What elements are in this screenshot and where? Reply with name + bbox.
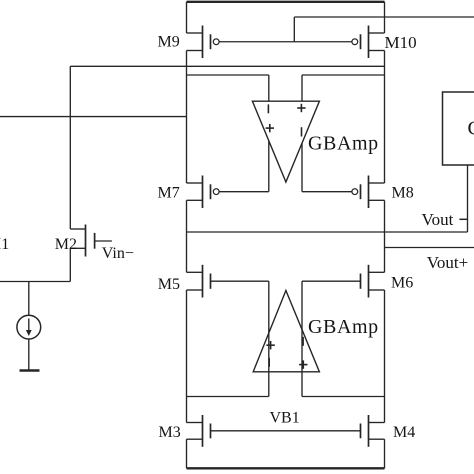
- wire: gate bias stub up: [293, 17, 295, 42]
- wire: M9/M10 drain link: [70, 65, 384, 67]
- wire: left branch, M3 source to bottom rail: [186, 439, 188, 468]
- wire: Vout- net: [187, 231, 468, 233]
- wire: current source to supply tick: [28, 339, 30, 370]
- wire: bias line to right edge: [294, 16, 474, 18]
- transistor M5: [187, 265, 211, 298]
- GBAmp1 minus output mark: [301, 127, 303, 136]
- wire: left branch, rail to M9 drain: [186, 2, 188, 33]
- svg-text:M7: M7: [158, 184, 180, 201]
- svg-text:Vin−: Vin−: [102, 245, 134, 262]
- label Vout-: [422, 210, 469, 229]
- wire: GBAmp2 left sense segment: [187, 396, 269, 398]
- GBAmp2 plus input mark: [299, 360, 307, 368]
- GBAmp2 minus input mark: [268, 358, 270, 367]
- transistor M4: [361, 415, 385, 447]
- wire: right branch, rail to M10 drain: [384, 2, 386, 33]
- wire: right branch, M10 source to M8 drain: [384, 51, 386, 184]
- transistor M9: [187, 26, 220, 59]
- wire: Vout+ net: [385, 247, 474, 249]
- wire: M1 drain to left branch: [0, 116, 187, 118]
- GBAmp2 plus output mark: [266, 341, 274, 349]
- svg-text:GBAmp: GBAmp: [308, 316, 379, 338]
- wire: GBAmp1 non-inverting input stub: [301, 75, 303, 101]
- svg-text:VB1: VB1: [270, 410, 300, 427]
- transistor M6: [361, 265, 385, 298]
- wire: left cascode sense segment: [187, 74, 269, 76]
- wire: M2 source to tail node: [69, 248, 71, 281]
- svg-text:M4: M4: [393, 424, 415, 441]
- wire: right branch, M4 source to bottom rail: [384, 439, 386, 468]
- ground bottom rail: [187, 467, 385, 469]
- svg-text:M8: M8: [392, 184, 414, 201]
- op-amp GBAmp2: [253, 291, 319, 372]
- transistor M7: [187, 176, 220, 209]
- svg-text:M3: M3: [159, 424, 181, 441]
- GBAmp2 minus output mark: [302, 337, 304, 346]
- transistor M10: [352, 26, 385, 59]
- transistor M8: [352, 176, 385, 209]
- svg-text:M10: M10: [385, 33, 417, 52]
- wire: M6 gate to GBAmp2 output: [302, 281, 361, 396]
- svg-text:M1: M1: [0, 236, 9, 253]
- wire: tail to current source: [28, 282, 30, 316]
- GBAmp1 plus output mark: [266, 124, 274, 132]
- svg-text:Vout+: Vout+: [427, 253, 468, 272]
- svg-text:C: C: [468, 118, 474, 140]
- ground tick under current source: [20, 369, 40, 372]
- wire: right cascode sense segment: [302, 74, 385, 76]
- wire: M5 gate to GBAmp2 output: [211, 281, 269, 396]
- wire: left branch, M5 source to M3 drain: [186, 290, 188, 423]
- svg-text:Vout: Vout: [422, 210, 454, 229]
- wire: GBAmp2 right sense segment: [302, 396, 385, 398]
- GBAmp1 plus input mark: [297, 104, 305, 112]
- svg-text:M2: M2: [55, 236, 77, 253]
- wire: GBAmp1 output to M7 gate: [219, 141, 269, 192]
- wire: CMFB box to Vout-: [467, 165, 469, 232]
- current source I1: [17, 315, 41, 339]
- wire: GBAmp1 inverting input stub: [268, 75, 270, 101]
- transistor M2: [70, 225, 112, 257]
- wire: VB1 gate line M3 to M4: [211, 430, 361, 432]
- wire: GBAmp1 output to M8 gate: [302, 143, 352, 191]
- svg-text:M9: M9: [158, 33, 180, 50]
- wire: M2 drain riser: [69, 66, 71, 229]
- wire: M9 gate to M10 gate: [219, 41, 352, 43]
- transistor M3: [187, 415, 211, 447]
- VDD top rail: [187, 1, 385, 3]
- CMFB box: [443, 92, 474, 165]
- wire: tail node line: [0, 281, 70, 283]
- GBAmp1 minus input mark: [267, 104, 269, 113]
- svg-text:GBAmp: GBAmp: [308, 133, 379, 155]
- wire: right branch, M6 source to M4 drain: [384, 290, 386, 423]
- svg-text:M6: M6: [391, 275, 413, 292]
- wire: right branch, M8 source to M6 drain: [384, 200, 386, 272]
- op-amp GBAmp1: [252, 101, 319, 182]
- svg-text:M5: M5: [158, 276, 180, 293]
- wire: left branch, M7 source to M5 drain: [186, 200, 188, 272]
- wire: left branch, M9 source to M7 drain: [186, 51, 188, 184]
